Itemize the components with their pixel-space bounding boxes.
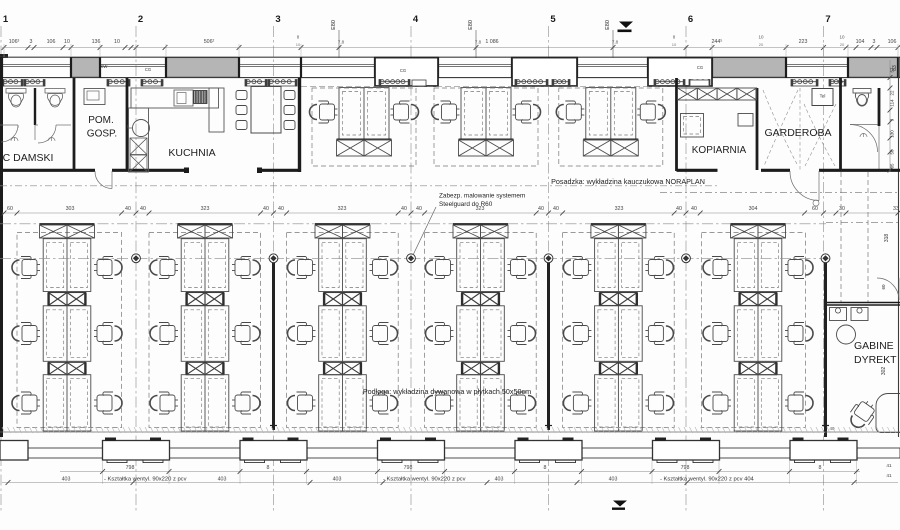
kitchen round sink: [133, 120, 150, 137]
svg-text:20: 20: [840, 42, 845, 47]
svg-text:40: 40: [401, 206, 407, 212]
cluster 6 mid cabinet 1: [739, 293, 758, 306]
svg-text:60: 60: [7, 206, 13, 212]
door posts kitchen: [184, 168, 189, 174]
cluster 2 desks row 3: [181, 375, 229, 431]
kopiarnia desk: [681, 114, 704, 138]
svg-text:40: 40: [140, 206, 146, 212]
cluster 5 mid cabinet 1: [600, 293, 619, 306]
kopiarnia west wall: [675, 78, 678, 171]
svg-text:- Kształtka wentyl. 90x220 z p: - Kształtka wentyl. 90x220 z pcv: [104, 477, 187, 483]
svg-text:Steelguard do R60: Steelguard do R60: [439, 201, 493, 208]
svg-text:30: 30: [839, 206, 845, 212]
cluster 1 mid cabinet 2: [48, 362, 67, 374]
wc right door: [850, 125, 878, 153]
window unit at axis 411: [378, 441, 445, 461]
kitchen dining table: [251, 87, 281, 134]
svg-text:244⁵: 244⁵: [711, 39, 722, 45]
top cluster at 364: [339, 88, 389, 140]
svg-text:GARDEROBA: GARDEROBA: [764, 127, 831, 139]
cluster 4 desks row 1: [457, 239, 505, 292]
pom gosp sink: [84, 89, 105, 105]
svg-text:33: 33: [893, 206, 899, 212]
north wall mullion posts: [2, 57, 898, 78]
cluster 3 desks row 2: [319, 306, 367, 362]
kitchen sink: [174, 90, 193, 106]
svg-text:318: 318: [884, 234, 890, 243]
toilets wc damski: [6, 89, 26, 108]
svg-text:40: 40: [538, 206, 544, 212]
svg-text:KUCHNIA: KUCHNIA: [168, 147, 215, 159]
svg-text:403: 403: [218, 477, 227, 483]
cluster 3 desks row 3: [319, 375, 367, 431]
svg-text:7: 7: [825, 14, 830, 25]
desk zone 3: [287, 233, 399, 428]
cluster 1 desks row 2: [43, 306, 91, 362]
cluster 4 desks row 3: [457, 375, 505, 431]
svg-text:403: 403: [333, 477, 342, 483]
svg-text:114: 114: [890, 99, 895, 107]
svg-text:104: 104: [856, 39, 865, 45]
svg-text:41: 41: [886, 473, 892, 479]
svg-text:403: 403: [495, 477, 504, 483]
cluster 1 desks row 1: [43, 239, 91, 292]
director office north wall: [827, 302, 900, 304]
svg-text:302: 302: [881, 367, 887, 376]
cluster 4 mid cabinet 1: [462, 293, 481, 306]
desk zone 4: [425, 233, 537, 428]
kopiarnia / garderoba wall: [756, 88, 759, 170]
director office cabinets: [830, 308, 847, 321]
kitchen appliances X: [130, 138, 147, 155]
svg-text:KW: KW: [101, 64, 108, 69]
wall WC damski / pom gosp: [73, 78, 76, 170]
bottom dimension row 2: [2, 482, 898, 484]
facade sill dashed line: [301, 86, 676, 88]
section marker II top: [619, 22, 633, 29]
corridor dashed boundary: [0, 185, 717, 187]
svg-text:40: 40: [263, 206, 269, 212]
svg-text:7,8: 7,8: [338, 40, 345, 45]
south wall hatch strip: [2, 427, 896, 433]
svg-text:Posadzka: wykładzina kauczukow: Posadzka: wykładzina kauczukowa NORAPLAN: [551, 177, 705, 186]
svg-text:3: 3: [275, 14, 280, 25]
svg-text:Tel: Tel: [820, 94, 826, 99]
svg-text:E80: E80: [605, 20, 611, 30]
svg-text:83: 83: [892, 65, 898, 71]
svg-text:136: 136: [92, 39, 101, 45]
svg-text:10: 10: [839, 35, 845, 40]
svg-text:3: 3: [873, 39, 876, 45]
cluster 1 mid cabinet 1: [48, 293, 67, 306]
svg-text:40: 40: [676, 206, 682, 212]
cluster 5 mid cabinet 2: [600, 362, 619, 374]
top cluster at 486: [461, 88, 511, 140]
cluster 6 mid cabinet 2: [739, 362, 758, 374]
cluster 6 chairs: [703, 257, 731, 279]
cluster 5 chairs: [563, 257, 591, 279]
svg-text:C DAMSKI: C DAMSKI: [3, 152, 54, 164]
svg-text:DYREKT: DYREKT: [854, 354, 897, 366]
window unit at axis 136: [103, 441, 170, 461]
cluster 1 desks row 3: [43, 375, 91, 431]
svg-text:506²: 506²: [204, 39, 215, 45]
middle dimension line: [2, 212, 898, 214]
kopiarnia copier: [738, 114, 753, 127]
heater cabinet small boxes: [412, 80, 426, 86]
cluster 3 mid cabinet 1: [324, 293, 343, 306]
west exterior wall: [0, 57, 3, 437]
window unit at axis 686: [653, 441, 720, 461]
svg-text:130: 130: [890, 130, 895, 138]
toilet wc right: [853, 89, 871, 107]
svg-text:35: 35: [890, 163, 895, 169]
east dimension strip: [889, 60, 891, 172]
svg-text:Podłoga: wykładzina dywanowa w: Podłoga: wykładzina dywanowa w płytkach …: [363, 387, 531, 396]
north wall solid segments (gray): [71, 58, 100, 78]
svg-text:1 086: 1 086: [485, 39, 498, 45]
wc right drain: [860, 134, 867, 137]
cluster 5 storage cabinet: [591, 223, 646, 225]
wc stall fronts and doors: [0, 124, 18, 126]
north wall glazing lines: [0, 65, 848, 67]
svg-text:223: 223: [799, 39, 808, 45]
cluster 3 mid cabinet 2: [324, 362, 343, 374]
svg-text:20: 20: [759, 42, 764, 47]
desk zone 5: [563, 233, 675, 428]
wall pom gosp / kuchnia: [126, 78, 129, 170]
cluster 6 desks row 1: [734, 239, 782, 292]
cluster 3 desks row 1: [319, 239, 367, 292]
desk zone 6: [702, 233, 806, 428]
cluster 3 chairs: [288, 257, 316, 279]
svg-text:7,8: 7,8: [475, 40, 482, 45]
cluster 1 chairs: [12, 257, 40, 279]
corner shaft mark: [0, 54, 8, 58]
garderoba hanging rails dashed: [763, 88, 836, 170]
kitchen east wall: [298, 78, 301, 172]
svg-text:323: 323: [338, 206, 347, 212]
top dimension line: [2, 47, 898, 49]
cluster 5 desks row 1: [595, 239, 643, 292]
svg-text:10: 10: [64, 39, 70, 45]
svg-text:40: 40: [278, 206, 284, 212]
svg-text:22: 22: [890, 90, 895, 96]
svg-text:7,8: 7,8: [612, 40, 619, 45]
window unit at axis 273.5: [240, 441, 307, 461]
svg-text:10: 10: [758, 35, 764, 40]
kitchen counter top run: [131, 88, 219, 108]
svg-text:E80: E80: [468, 20, 474, 30]
axis nodes: [132, 254, 141, 263]
cluster 2 mid cabinet 2: [186, 362, 205, 374]
horizontal axis dash-dot through nodes: [0, 257, 826, 259]
pom gosp door arc: [95, 171, 112, 189]
svg-text:CG: CG: [145, 67, 151, 72]
cluster 2 storage cabinet: [178, 223, 233, 225]
cluster 5 desks row 2: [595, 306, 643, 362]
svg-text:40: 40: [553, 206, 559, 212]
svg-text:8: 8: [267, 465, 270, 471]
svg-text:1: 1: [3, 14, 9, 25]
south wall line: [0, 431, 900, 433]
svg-text:CG: CG: [697, 65, 703, 70]
desk zone 1: [17, 233, 122, 428]
top cluster at 610.8: [586, 88, 636, 140]
svg-text:798: 798: [681, 465, 690, 471]
svg-text:GOSP.: GOSP.: [87, 129, 117, 140]
svg-text:- Kształtka wentyl. 90x220 z p: - Kształtka wentyl. 90x220 z pcv: [383, 477, 466, 483]
kopiarnia shelf row: [678, 88, 698, 100]
east edge wall: [898, 57, 900, 437]
svg-text:5: 5: [550, 14, 556, 25]
bottom dimension row 1: [60, 471, 860, 473]
cluster 4 storage cabinet: [453, 223, 508, 225]
svg-text:40: 40: [416, 206, 422, 212]
south window band connectors: [28, 448, 900, 458]
svg-text:106³: 106³: [9, 39, 20, 45]
svg-text:KOPIARNIA: KOPIARNIA: [692, 145, 747, 156]
corridor-side walls of north rooms: [0, 169, 900, 172]
kitchen stove: [194, 91, 208, 104]
svg-text:303: 303: [66, 206, 75, 212]
kitchen left counter: [129, 108, 149, 172]
svg-text:3: 3: [30, 39, 33, 45]
svg-text:304: 304: [749, 206, 758, 212]
desk zone 2: [149, 233, 261, 428]
west half window unit: [0, 441, 28, 461]
svg-text:323: 323: [615, 206, 624, 212]
cluster 2 desks row 2: [181, 306, 229, 362]
svg-text:6: 6: [688, 14, 693, 25]
director round table: [837, 325, 856, 344]
cluster 4 chairs: [426, 257, 454, 279]
svg-text:323: 323: [476, 206, 485, 212]
cluster 3 storage cabinet: [315, 223, 370, 225]
cluster 6 desks row 3: [734, 375, 782, 431]
director corner desk: [876, 394, 900, 433]
svg-text:41: 41: [886, 463, 892, 469]
garderoba / wc meski wall: [839, 78, 842, 170]
cluster 2 mid cabinet 1: [186, 293, 205, 306]
zone top dash-dot: [0, 223, 826, 225]
svg-text:10: 10: [114, 39, 120, 45]
svg-text:E80: E80: [331, 20, 337, 30]
director office lobby dashed: [826, 222, 900, 224]
svg-text:403: 403: [62, 477, 71, 483]
svg-text:- Kształtka wentyl. 90x220 z p: - Kształtka wentyl. 90x220 z pcv 404: [660, 477, 755, 483]
radiators: [2, 80, 23, 87]
E80 riser markers: [338, 30, 340, 58]
window unit at axis 823.5: [790, 441, 857, 461]
svg-text:POM.: POM.: [88, 115, 114, 126]
svg-text:GABINE: GABINE: [854, 340, 894, 352]
window unit at axis 548.5: [515, 441, 582, 461]
section marker II bottom: [613, 501, 627, 507]
svg-text:2: 2: [138, 14, 143, 25]
exterior north wall: [0, 56, 900, 58]
wc stall partition: [34, 88, 36, 125]
svg-text:323: 323: [201, 206, 210, 212]
wc floor drain symbols: [11, 138, 18, 141]
svg-text:798: 798: [404, 465, 413, 471]
svg-text:4: 4: [413, 14, 419, 25]
director office door arc: [877, 278, 899, 300]
svg-text:50: 50: [890, 149, 895, 155]
cluster 2 chairs: [150, 257, 178, 279]
cluster 4 desks row 2: [457, 306, 505, 362]
cluster 6 desks row 2: [734, 306, 782, 362]
garderoba door: [790, 171, 819, 201]
cluster 6 storage cabinet: [731, 223, 786, 225]
kitchen chairs: [236, 91, 247, 100]
kitchen peninsula: [209, 88, 224, 132]
director chair: [845, 397, 879, 433]
bottom extension lines: [103, 461, 857, 484]
glazed partitions: [272, 258, 275, 430]
svg-text:60: 60: [881, 284, 886, 290]
svg-text:CG: CG: [400, 68, 406, 73]
svg-text:40: 40: [125, 206, 131, 212]
top extension lines: [4, 44, 898, 57]
cluster 4 mid cabinet 2: [462, 362, 481, 374]
svg-text:10: 10: [296, 42, 301, 47]
wc meski east wall: [878, 88, 881, 126]
svg-text:Zabezp. malowanie systemem: Zabezp. malowanie systemem: [439, 193, 525, 200]
cluster 1 storage cabinet: [40, 223, 95, 225]
garderoba tel box: [812, 89, 833, 106]
svg-text:106: 106: [888, 39, 897, 45]
note leader: [414, 207, 437, 254]
svg-text:60: 60: [812, 206, 818, 212]
cluster 2 desks row 1: [181, 239, 229, 292]
facade heater cabinets: [375, 58, 438, 86]
svg-text:798: 798: [126, 465, 135, 471]
svg-text:8: 8: [819, 465, 822, 471]
svg-text:40: 40: [691, 206, 697, 212]
svg-text:8: 8: [544, 465, 547, 471]
cluster 5 desks row 3: [595, 375, 643, 431]
svg-text:106: 106: [47, 39, 56, 45]
svg-text:403: 403: [609, 477, 618, 483]
svg-text:10: 10: [672, 42, 677, 47]
